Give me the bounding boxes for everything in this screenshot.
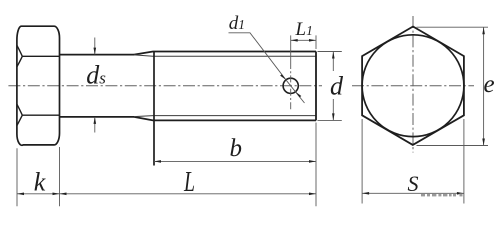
L1 dimension: extension above end face (315, 35, 317, 49)
L dimension line (60, 193, 317, 195)
full-thread start line (b extension) (153, 52, 155, 166)
bolt end face (315, 52, 317, 121)
hexagon of head end view (362, 27, 464, 145)
bolt axis centerline (side view) (8, 85, 322, 87)
e dimension: extension lines from apexes (417, 26, 489, 28)
svg-text:k: k (34, 168, 46, 197)
svg-text:d1: d1 (229, 13, 245, 34)
d dimension: extension lines right of end face (318, 51, 342, 53)
svg-text:L1: L1 (295, 19, 313, 40)
b dimension line (154, 160, 316, 162)
dimension ds: upper arrow line (94, 38, 96, 55)
L1 dimension line with arrows (291, 39, 316, 41)
inscribed chamfer circle (362, 35, 464, 137)
thread runout top (shank to major diameter) (134, 52, 316, 55)
k extension lines (16, 148, 18, 206)
s extension lines (361, 119, 363, 204)
dimension ds: lower arrow line (94, 117, 96, 133)
thread minor diameter top line (134, 55, 316, 56)
svg-text:L: L (183, 166, 195, 198)
head upper facet line with chamfer wedge (17, 45, 60, 67)
end view vertical centerline (412, 16, 414, 153)
thread runout bottom (134, 117, 316, 121)
leader line for d1 with underline (229, 33, 286, 80)
k dimension line (17, 193, 60, 195)
shank bottom edge (60, 116, 135, 118)
watermark (421, 193, 463, 196)
hole vertical centerline / L1 extension (290, 35, 292, 62)
e dimension line (483, 27, 485, 145)
svg-text:S: S (408, 171, 419, 196)
d dimension line upper segment (332, 52, 334, 72)
thread minor diameter bottom line (134, 116, 316, 117)
s dimension line (362, 192, 464, 194)
svg-text:b: b (230, 135, 243, 162)
L dimension: right extension below end face (315, 123, 317, 207)
leader diameter line through hole (286, 80, 305, 103)
hex head side view outline (17, 26, 60, 145)
shank top edge (60, 54, 135, 56)
d dimension line lower segment (332, 99, 334, 120)
svg-text:d: d (330, 72, 344, 101)
end view horizontal centerline (352, 85, 474, 87)
head lower facet line with chamfer wedge (17, 104, 60, 125)
svg-text:e: e (484, 71, 495, 98)
cross hole circle (283, 78, 298, 93)
